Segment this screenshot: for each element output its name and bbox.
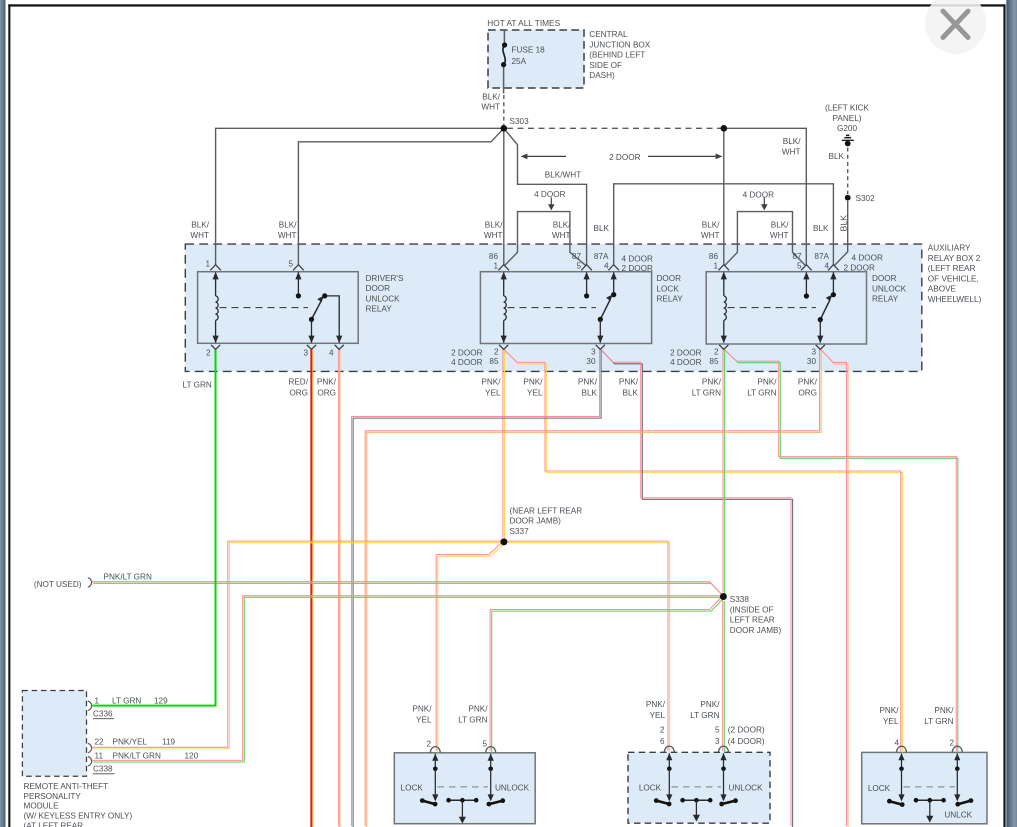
relay U1 pin 4 contact and wire (325, 296, 340, 343)
svg-text:WHT: WHT (190, 231, 209, 240)
wire BLK/WHT 4-door jumper relay2 (504, 212, 586, 266)
svg-text:4 DOOR: 4 DOOR (670, 358, 701, 367)
svg-text:CENTRAL: CENTRAL (589, 30, 628, 39)
svg-text:PNK/: PNK/ (412, 704, 432, 713)
svg-text:BLK/: BLK/ (279, 221, 297, 230)
svg-text:(LEFT REAR: (LEFT REAR (928, 264, 976, 273)
svg-text:PNK/YEL: PNK/YEL (113, 737, 148, 746)
4-door arrow relay3 (763, 198, 765, 206)
svg-text:SIDE OF: SIDE OF (589, 61, 622, 70)
motor box 2 border (dashed) (628, 752, 770, 823)
svg-text:WHT: WHT (701, 231, 720, 240)
svg-text:(W/ KEYLESS ENTRY ONLY): (W/ KEYLESS ENTRY ONLY) (24, 812, 133, 821)
wire PNK/LT GRN relay3 pin 85 branch to motor box 3 pin 2 (723, 348, 958, 752)
svg-text:87: 87 (792, 252, 802, 261)
relay U1 coil (216, 273, 219, 343)
relay U1 dashed actuator link (220, 307, 309, 309)
svg-text:1: 1 (713, 262, 718, 271)
svg-text:6: 6 (660, 737, 665, 746)
svg-text:(NOT USED): (NOT USED) (34, 580, 82, 589)
relay U2 dashed actuator link (508, 307, 597, 309)
svg-text:LOCK: LOCK (657, 284, 680, 293)
svg-text:22: 22 (95, 737, 105, 746)
svg-text:WHT: WHT (278, 231, 297, 240)
wire BLK/WHT fuse output (503, 66, 505, 94)
svg-text:YEL: YEL (416, 715, 432, 724)
svg-text:PANEL): PANEL) (833, 114, 862, 123)
svg-text:C336: C336 (93, 710, 113, 719)
relay U2 pin 87A contact (613, 273, 615, 293)
svg-text:BLK: BLK (829, 152, 845, 161)
wire PNK/YEL relay2 pin 85 branch to motor box 3 pin 4 (503, 348, 902, 752)
junction node 2-door bus (721, 125, 728, 132)
svg-text:UNLOCK: UNLOCK (728, 784, 763, 793)
close button (925, 0, 986, 54)
svg-text:DOOR: DOOR (366, 284, 391, 293)
svg-text:LOCK: LOCK (401, 784, 424, 793)
svg-text:ORG: ORG (289, 388, 308, 397)
svg-text:2: 2 (206, 348, 211, 357)
svg-text:85: 85 (709, 357, 719, 366)
svg-text:DRIVER'S: DRIVER'S (366, 274, 404, 283)
wire PNK/ORG relay3 pin 30 branch (820, 348, 849, 827)
svg-text:BLK/: BLK/ (553, 221, 571, 230)
svg-text:DOOR: DOOR (657, 274, 682, 283)
door lock motor box 3 fill (862, 752, 987, 823)
svg-text:S338: S338 (730, 595, 750, 604)
svg-text:BLK: BLK (594, 224, 610, 233)
svg-text:DASH): DASH) (589, 71, 615, 80)
svg-text:JUNCTION BOX: JUNCTION BOX (589, 40, 650, 49)
4-door arrow relay2 (550, 198, 552, 206)
svg-text:UNLOCK: UNLOCK (366, 294, 401, 303)
svg-text:LT GRN: LT GRN (183, 381, 212, 390)
svg-text:BLK/: BLK/ (771, 221, 789, 230)
svg-text:PNK/: PNK/ (879, 706, 899, 715)
svg-text:BLK/: BLK/ (783, 137, 801, 146)
svg-text:G200: G200 (837, 124, 857, 133)
svg-text:87: 87 (572, 252, 582, 261)
svg-text:C338: C338 (93, 765, 113, 774)
svg-text:2 DOOR: 2 DOOR (609, 153, 640, 162)
svg-text:BLK/: BLK/ (485, 221, 503, 230)
wire LT GRN relay1 pin 2 to module pin 1 (93, 349, 216, 706)
svg-text:YEL: YEL (883, 717, 899, 726)
svg-text:DOOR JAMB): DOOR JAMB) (730, 626, 782, 635)
svg-text:11: 11 (95, 752, 104, 761)
svg-text:RED/: RED/ (288, 377, 308, 386)
svg-text:4: 4 (824, 262, 829, 271)
svg-text:3: 3 (811, 348, 816, 357)
svg-text:119: 119 (162, 737, 175, 746)
motor box 1 border (394, 753, 535, 824)
svg-text:MODULE: MODULE (24, 802, 60, 811)
svg-text:2: 2 (426, 740, 431, 749)
wire BLK/WHT 4-door jumper relay3 (725, 212, 806, 266)
svg-text:DOOR JAMB): DOOR JAMB) (510, 517, 562, 526)
relay pin connector chevrons (210, 265, 221, 271)
svg-text:(2 DOOR): (2 DOOR) (728, 725, 765, 734)
central junction box fill (488, 30, 584, 88)
2-door span annotation left arrow (527, 155, 567, 157)
wire BLK/WHT dashed to S303 (503, 95, 505, 125)
relay U2 door lock relay box (480, 272, 651, 344)
svg-text:S303: S303 (510, 117, 530, 126)
wire PNK/LT GRN not-used branch to S338 (92, 582, 725, 597)
svg-text:PNK/: PNK/ (934, 706, 954, 715)
svg-text:WHEELWELL): WHEELWELL) (928, 295, 982, 304)
wire BLK/WHT junction to relay3 pin 87 (724, 128, 807, 265)
svg-text:4: 4 (604, 262, 609, 271)
page frame right border (1003, 4, 1005, 827)
svg-text:(BEHIND LEFT: (BEHIND LEFT (589, 51, 645, 60)
svg-text:PNK/: PNK/ (317, 377, 337, 386)
svg-text:86: 86 (709, 252, 719, 261)
svg-text:BLK/: BLK/ (482, 92, 500, 101)
relay U3 door unlock relay box (706, 272, 866, 344)
svg-text:YEL: YEL (527, 388, 543, 397)
wire BLK/WHT S303 to relay2 pin 87 (504, 128, 587, 265)
svg-text:5: 5 (797, 262, 802, 271)
door lock motor box 2 fill (628, 752, 770, 823)
fuse 18 symbol (503, 45, 505, 65)
svg-text:4 DOOR: 4 DOOR (743, 190, 774, 199)
svg-text:PNK/LT GRN: PNK/LT GRN (113, 752, 161, 761)
svg-text:(LEFT KICK: (LEFT KICK (825, 104, 870, 113)
relay U1 driver's door unlock relay box (198, 272, 359, 344)
svg-text:2 DOOR: 2 DOOR (844, 264, 875, 273)
svg-text:RELAY BOX 2: RELAY BOX 2 (928, 254, 981, 263)
svg-text:RELAY: RELAY (657, 295, 684, 304)
svg-text:RELAY: RELAY (366, 305, 393, 314)
svg-text:WHT: WHT (770, 231, 789, 240)
wire PNK/LT GRN S338 to module pin 11 (92, 596, 725, 762)
svg-text:(4 DOOR): (4 DOOR) (728, 737, 765, 746)
svg-text:LT GRN: LT GRN (924, 717, 953, 726)
svg-text:LT GRN: LT GRN (112, 697, 141, 706)
svg-text:87A: 87A (594, 252, 609, 261)
svg-text:5: 5 (576, 262, 581, 271)
door lock motor box 1 fill (394, 753, 535, 824)
svg-text:PNK/: PNK/ (481, 377, 501, 386)
wire BLK/WHT S303 to relay1 pin 1 (216, 128, 504, 265)
svg-text:BLK: BLK (582, 388, 598, 397)
central junction box border (488, 30, 584, 88)
svg-text:ORG: ORG (798, 388, 817, 397)
svg-text:5: 5 (715, 725, 720, 734)
wire PNK/YEL S337 to motor box 1 pin 2 (436, 541, 504, 752)
svg-text:AUXILIARY: AUXILIARY (928, 244, 971, 253)
svg-text:UNLCK: UNLCK (944, 810, 972, 819)
svg-text:S337: S337 (510, 527, 530, 536)
wire dashed 2-door bus S303 to junction (507, 127, 721, 129)
wire BLK to relay2 pin 87A and relay3 pin 87A (614, 184, 834, 265)
wire RED/ORG from relay1 pin 3 (310, 349, 312, 827)
svg-text:OF VEHICLE,: OF VEHICLE, (928, 274, 979, 283)
svg-text:PNK/: PNK/ (798, 377, 818, 386)
remote anti-theft module fill (22, 691, 86, 777)
svg-text:BLK/: BLK/ (191, 221, 209, 230)
svg-text:30: 30 (807, 357, 817, 366)
relay U3 coil (724, 273, 727, 343)
wire PNK/YEL relay2 pin 85 to S337 (503, 348, 505, 539)
svg-text:PNK/: PNK/ (646, 700, 666, 709)
svg-text:LT GRN: LT GRN (690, 711, 719, 720)
svg-text:ORG: ORG (317, 388, 336, 397)
wire PNK/BLK relay2 pin 30 main run (352, 348, 602, 827)
svg-text:BLK: BLK (838, 215, 848, 232)
svg-text:WHT: WHT (552, 231, 571, 240)
page frame top border (8, 4, 1005, 6)
wire PNK/LT GRN relay3 pin 85 to S338 (723, 348, 725, 593)
page frame left border (8, 4, 10, 827)
svg-text:ABOVE: ABOVE (928, 285, 957, 294)
svg-text:3: 3 (303, 348, 308, 357)
motor box 1 internals (430, 747, 440, 753)
svg-text:PNK/: PNK/ (578, 377, 598, 386)
svg-text:PNK/LT GRN: PNK/LT GRN (104, 572, 152, 581)
relay U3 pin 87 contact (805, 273, 807, 295)
svg-text:LOCK: LOCK (868, 784, 891, 793)
svg-text:2 DOOR: 2 DOOR (670, 348, 701, 357)
svg-text:LEFT REAR: LEFT REAR (730, 616, 775, 625)
auxiliary relay box 2 border (185, 244, 922, 371)
svg-text:2 DOOR: 2 DOOR (622, 264, 653, 273)
relay U3 switch blade (820, 300, 830, 320)
wire BLK/WHT junction down to relay3 pin 86 (723, 128, 725, 265)
svg-text:BLK/: BLK/ (702, 221, 720, 230)
svg-text:4 DOOR: 4 DOOR (852, 254, 883, 263)
svg-text:85: 85 (489, 357, 499, 366)
svg-text:2: 2 (494, 348, 499, 357)
module connector C338 pin 11 arc (88, 757, 92, 766)
svg-text:HOT AT ALL TIMES: HOT AT ALL TIMES (487, 18, 560, 28)
motor box 2 internals (664, 746, 674, 752)
svg-text:86: 86 (489, 252, 499, 261)
wire PNK/BLK relay2 pin 30 branch (600, 348, 793, 827)
svg-text:5: 5 (482, 740, 487, 749)
svg-text:LT GRN: LT GRN (458, 715, 487, 724)
auxiliary relay box 2 fill (185, 244, 922, 371)
svg-text:1: 1 (205, 259, 210, 268)
svg-text:FUSE 18: FUSE 18 (512, 45, 546, 54)
svg-text:WHT: WHT (484, 231, 503, 240)
wire BLK/WHT S303 to relay2 pin 86 (503, 128, 505, 265)
svg-text:129: 129 (154, 697, 168, 706)
svg-text:S302: S302 (856, 194, 876, 203)
svg-text:PERSONALITY: PERSONALITY (24, 792, 82, 801)
wire BLK dashed G200 to S302 (847, 148, 849, 195)
svg-text:3: 3 (715, 737, 720, 746)
svg-text:2: 2 (949, 739, 954, 748)
svg-text:UNLOCK: UNLOCK (872, 284, 907, 293)
svg-text:PNK/: PNK/ (757, 377, 777, 386)
ground symbol G200 (846, 134, 849, 136)
not-used connector arc (88, 578, 92, 587)
module connector C338 pin 22 arc (88, 743, 92, 752)
svg-text:1: 1 (95, 697, 100, 706)
svg-text:PNK/: PNK/ (468, 704, 488, 713)
window right edge bar (1006, 0, 1017, 827)
svg-text:(INSIDE OF: (INSIDE OF (730, 605, 774, 614)
svg-text:WHT: WHT (481, 103, 500, 112)
splice S302 (845, 195, 851, 201)
svg-text:4: 4 (329, 348, 334, 357)
splice S338 (720, 593, 727, 600)
svg-text:WHT: WHT (782, 147, 801, 156)
wire PNK/LT GRN S338 to motor box 1 pin 5 (490, 596, 724, 753)
svg-text:1: 1 (493, 262, 498, 271)
svg-text:LOCK: LOCK (639, 784, 662, 793)
wire PNK/YEL S337 to motor box 2 pin 6 (503, 541, 669, 752)
relay U1 switch blade (312, 301, 322, 320)
relay U2 switch blade (600, 300, 610, 320)
svg-text:YEL: YEL (650, 711, 666, 720)
svg-text:120: 120 (185, 752, 199, 761)
2-door span annotation right arrow (648, 155, 716, 157)
svg-text:2: 2 (714, 348, 719, 357)
motor box 3 internals (897, 746, 907, 752)
wire PNK/ORG from relay1 pin 4 (339, 348, 340, 827)
svg-text:PNK/: PNK/ (702, 377, 722, 386)
module connector C336 pin 1 arc (88, 701, 92, 710)
motor box 3 border (862, 752, 987, 823)
wire PNK/YEL S337 to module pin 22 (92, 541, 505, 749)
svg-text:4 DOOR: 4 DOOR (534, 190, 565, 199)
wire PNK/LT GRN S338 to motor box 2 pin 3 (723, 599, 725, 752)
relay U3 pin 87A contact (832, 273, 834, 293)
svg-text:25A: 25A (512, 57, 527, 66)
relay U3 dashed actuator link (728, 307, 816, 309)
wire fuse input (503, 30, 505, 44)
relay U2 pin 87 contact (586, 273, 588, 295)
svg-text:(NEAR LEFT REAR: (NEAR LEFT REAR (510, 506, 583, 515)
svg-text:2: 2 (660, 725, 665, 734)
svg-text:30: 30 (586, 357, 596, 366)
svg-text:YEL: YEL (485, 388, 501, 397)
svg-text:2 DOOR: 2 DOOR (451, 348, 482, 357)
svg-text:DOOR: DOOR (872, 274, 897, 283)
splice S303 (501, 125, 508, 132)
wire BLK/WHT S303 to relay1 pin 5 (298, 128, 503, 265)
svg-text:87A: 87A (814, 252, 829, 261)
svg-text:PNK/: PNK/ (619, 377, 639, 386)
window left edge bar (0, 0, 6, 827)
svg-text:BLK: BLK (813, 224, 829, 233)
svg-text:4 DOOR: 4 DOOR (622, 255, 653, 264)
svg-text:PNK/: PNK/ (700, 700, 720, 709)
remote anti-theft module border (22, 691, 86, 777)
wire PNK/ORG relay3 pin 30 main run (365, 348, 821, 827)
svg-text:REMOTE ANTI-THEFT: REMOTE ANTI-THEFT (24, 782, 109, 791)
svg-text:4: 4 (894, 739, 899, 748)
splice S337 (500, 538, 507, 545)
relay U2 coil (504, 273, 507, 343)
svg-text:RELAY: RELAY (872, 295, 899, 304)
svg-text:3: 3 (591, 348, 596, 357)
svg-text:PNK/: PNK/ (523, 377, 543, 386)
svg-text:4 DOOR: 4 DOOR (451, 358, 482, 367)
svg-text:BLK: BLK (623, 388, 639, 397)
wire BLK S302 to relay3 pin 87A (834, 201, 848, 266)
relay U1 pin 5 contact (297, 273, 299, 295)
svg-text:LT GRN: LT GRN (692, 388, 721, 397)
svg-text:BLK/WHT: BLK/WHT (545, 171, 581, 180)
svg-text:(AT LEFT REAR: (AT LEFT REAR (24, 822, 84, 827)
svg-text:LT GRN: LT GRN (747, 388, 776, 397)
svg-text:5: 5 (288, 259, 293, 268)
svg-text:UNLOCK: UNLOCK (495, 784, 530, 793)
